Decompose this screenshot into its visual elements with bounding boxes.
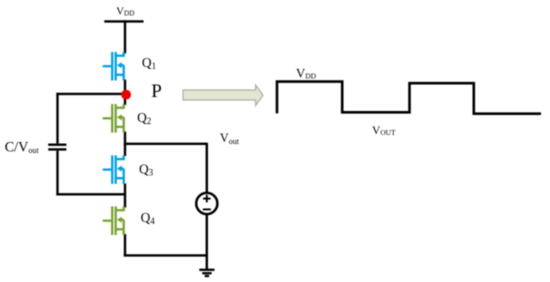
svg-text:VDD: VDD <box>296 66 317 80</box>
svg-text:Vout: Vout <box>220 131 240 146</box>
svg-text:Q2: Q2 <box>137 110 151 126</box>
svg-text:VOUT: VOUT <box>372 125 396 137</box>
svg-text:Q1: Q1 <box>142 55 156 71</box>
svg-text:Q4: Q4 <box>141 210 156 226</box>
svg-text:C/Vout: C/Vout <box>5 139 40 155</box>
svg-text:P: P <box>151 81 162 102</box>
svg-text:VDD: VDD <box>116 5 134 17</box>
svg-text:Q3: Q3 <box>139 161 154 177</box>
